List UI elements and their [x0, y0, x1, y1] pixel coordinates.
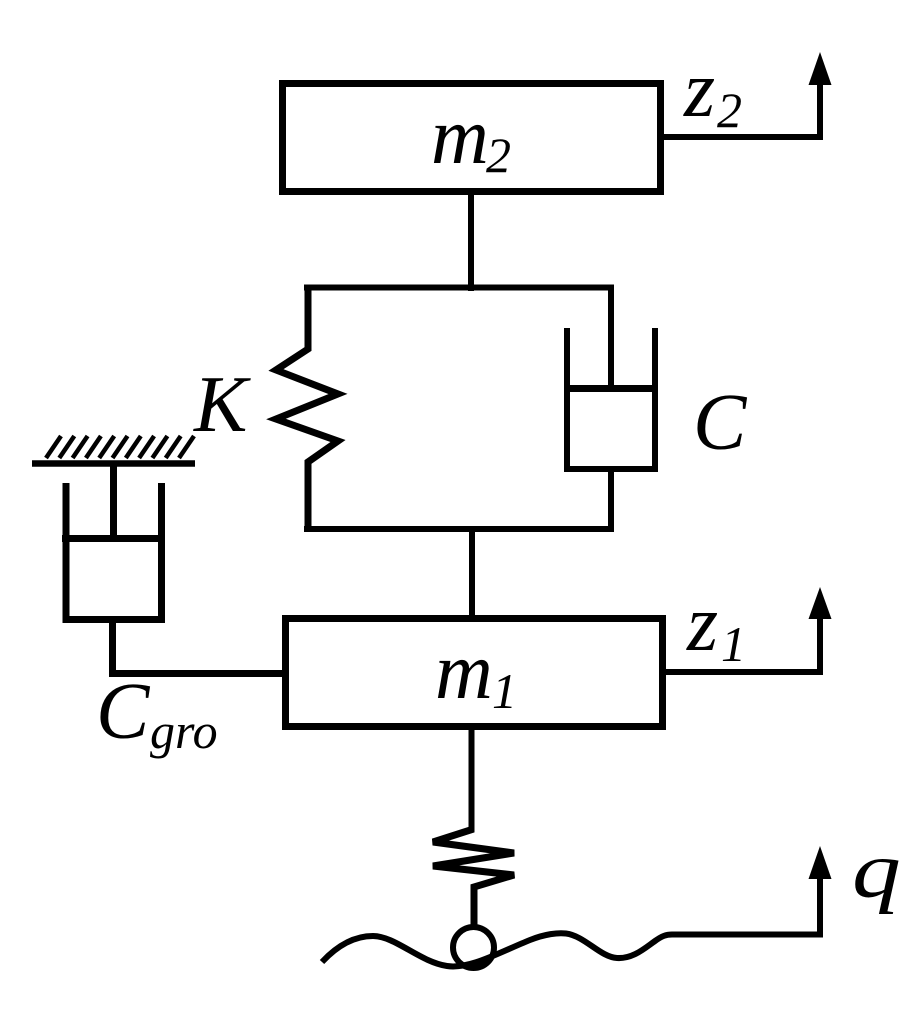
- svg-text:1: 1: [492, 663, 517, 719]
- svg-text:2: 2: [717, 82, 742, 138]
- svg-text:m: m: [435, 628, 493, 716]
- svg-text:m: m: [431, 93, 489, 181]
- svg-text:z: z: [683, 46, 715, 134]
- svg-text:C: C: [693, 379, 748, 467]
- svg-text:q: q: [852, 826, 901, 915]
- svg-text:gro: gro: [150, 703, 218, 759]
- svg-text:C: C: [96, 668, 151, 756]
- svg-text:2: 2: [486, 127, 511, 183]
- svg-text:1: 1: [721, 616, 746, 672]
- svg-text:z: z: [686, 580, 718, 668]
- svg-text:K: K: [193, 361, 251, 449]
